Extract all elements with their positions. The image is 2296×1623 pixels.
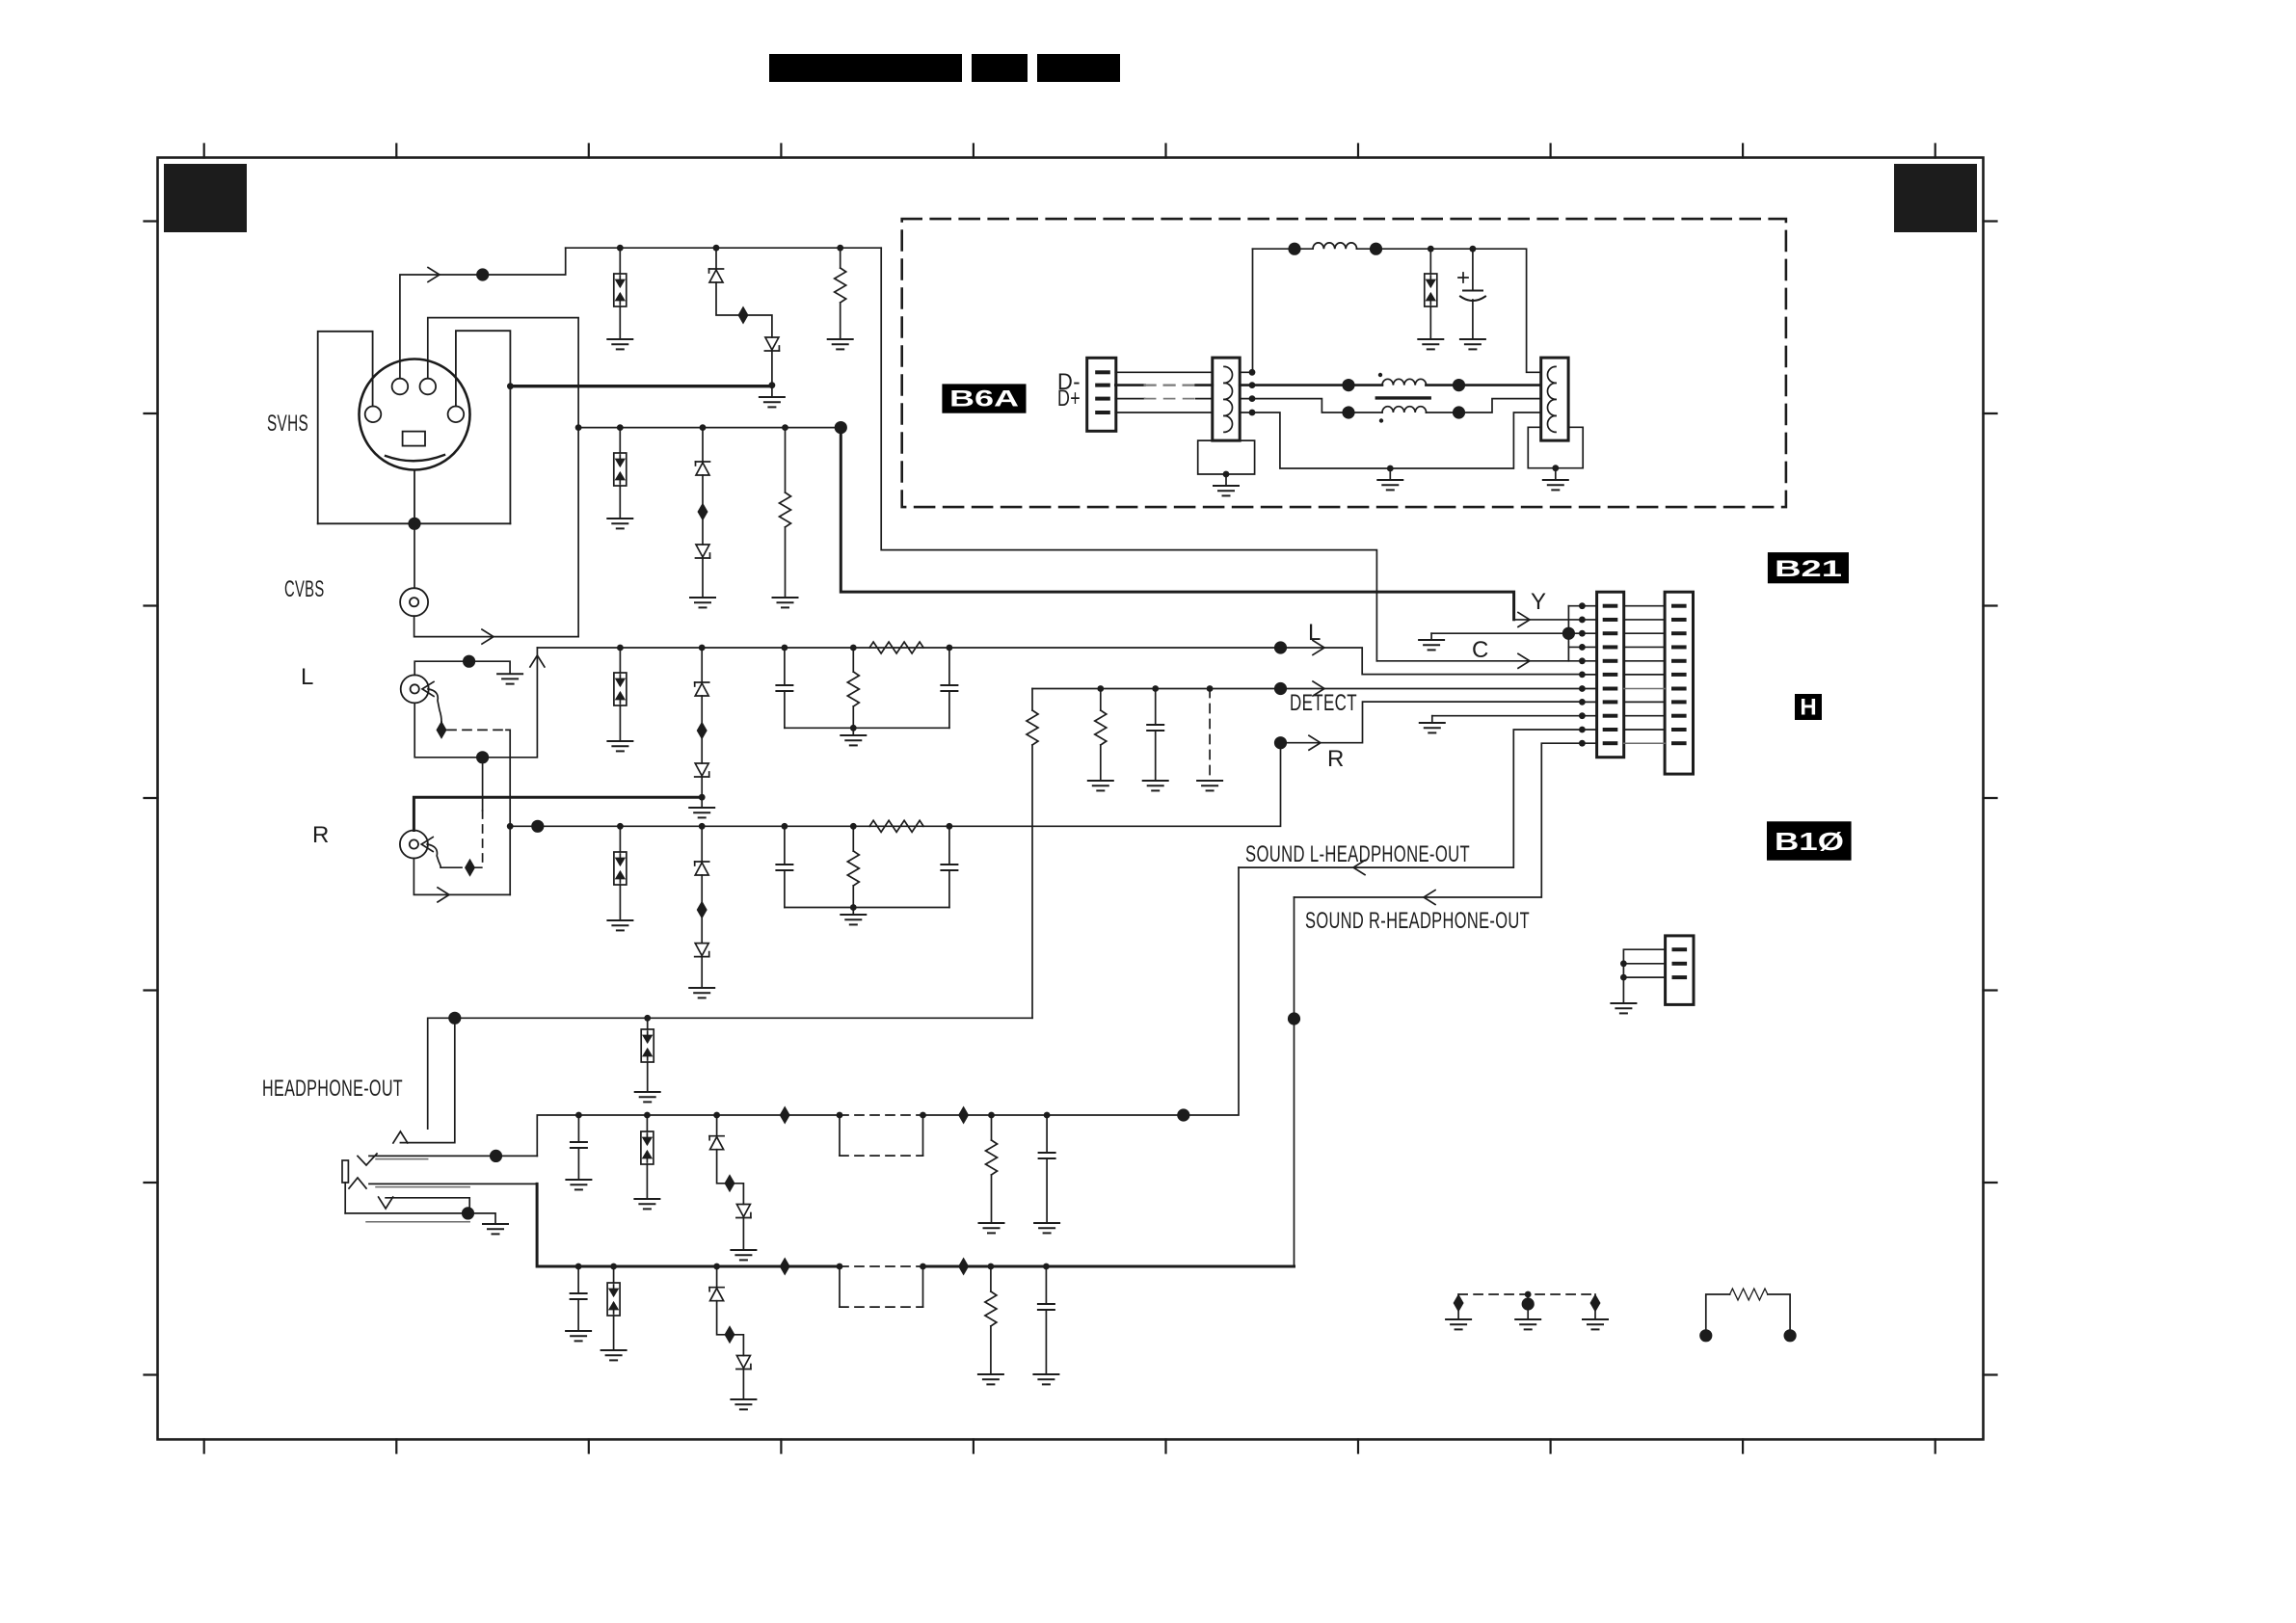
wires between connector blocks — [1624, 606, 1665, 730]
B6A label box — [942, 384, 1026, 412]
B6A dashed enclosure — [902, 219, 1786, 507]
node R cap2 — [947, 823, 953, 830]
dual diode D1 — [619, 248, 621, 274]
dual diode hpr — [613, 1266, 615, 1283]
shunt resistor L — [852, 648, 854, 672]
diamond hpl col — [725, 1174, 735, 1192]
svg-text:B21: B21 — [1775, 556, 1842, 582]
node hpl cap — [575, 1112, 582, 1119]
junction shell bottom — [408, 518, 420, 530]
choke coil upper — [1382, 379, 1427, 385]
shunt resistor R — [852, 826, 854, 851]
ground hpl cap — [566, 1180, 591, 1189]
node det res — [1097, 685, 1104, 692]
ground hpr cap — [566, 1331, 591, 1341]
arrow Y conn — [1518, 612, 1530, 626]
node R cap — [782, 823, 788, 830]
ground D2 — [760, 397, 785, 407]
wire pin1 to T1 — [1115, 371, 1213, 373]
wire headphone detect bus — [428, 1018, 1032, 1129]
cap hpl 2 — [1046, 1115, 1048, 1153]
wire row11 SOUND R — [1295, 743, 1583, 897]
wire L switch to R row — [506, 730, 510, 894]
junction top row left — [1288, 243, 1300, 255]
L RCA jack — [401, 675, 429, 703]
ground L col — [689, 808, 714, 817]
R jack switch lever — [427, 844, 441, 867]
node hpl diode col — [713, 1112, 720, 1119]
ground run mid — [1377, 480, 1402, 490]
dual diode D3 — [619, 428, 621, 453]
small 3-pin connector — [1666, 936, 1694, 1005]
arrow DETECT — [1313, 681, 1324, 696]
diode column D4 upper — [702, 428, 704, 462]
junction hpl out — [1177, 1108, 1189, 1121]
junction sleeve — [462, 1207, 474, 1219]
diamond hpr col — [725, 1325, 735, 1344]
wire headphone L row — [537, 1115, 840, 1156]
wire B6A top row — [1253, 249, 1541, 372]
wire R row — [510, 743, 1280, 827]
junction DETECT out — [1274, 682, 1287, 695]
node hpr tvs — [610, 1264, 617, 1270]
junction shell right ground — [507, 383, 514, 389]
ground hpl res — [979, 1223, 1004, 1233]
dashed ground cluster link — [1458, 1293, 1595, 1295]
svg-text:SVHS: SVHS — [267, 411, 308, 437]
connector block left — [1597, 592, 1624, 758]
frame tick marks right — [1984, 222, 1997, 1375]
wire second row — [578, 427, 841, 429]
arrow SOUND R — [1424, 891, 1435, 905]
svg-text:Y: Y — [1531, 589, 1547, 615]
ground L shell — [497, 674, 522, 683]
ground hpl tvs — [634, 1199, 659, 1209]
cap R pi 2 — [948, 826, 950, 865]
ground D4 — [690, 598, 715, 607]
arrow Y — [428, 268, 440, 282]
diode col R upper — [701, 826, 703, 862]
junction tip bar — [490, 1150, 502, 1162]
ground R1 — [828, 339, 853, 349]
ground L tvs — [607, 741, 632, 751]
wire row9 to ground — [1432, 715, 1583, 717]
diode col R lower — [701, 918, 703, 944]
SVHS connector circle — [360, 359, 470, 470]
CVBS drop from shell — [414, 523, 415, 588]
ground R tvs — [607, 920, 632, 930]
polarity dot upper — [1378, 373, 1382, 377]
node R tvs — [617, 823, 624, 830]
dual diode hp bus — [647, 1018, 649, 1029]
connector block right — [1665, 592, 1693, 774]
node hpr cap2 — [1043, 1264, 1050, 1270]
ground hpr res — [978, 1374, 1003, 1384]
H label box — [1795, 694, 1822, 720]
node R diode col — [699, 823, 706, 830]
diamond hpl row — [780, 1106, 790, 1125]
diode D2 upper — [715, 248, 717, 269]
wire T1 pin4 to ground run — [1240, 412, 1541, 468]
junction L out — [1274, 641, 1287, 653]
arrow SOUND L — [1353, 861, 1365, 875]
L jack shell top wire — [414, 661, 510, 675]
ground det dashed — [1197, 781, 1222, 790]
ground R shunt — [841, 915, 866, 924]
dashed link L switch — [447, 729, 506, 731]
cap hpl — [577, 1115, 579, 1142]
diode col L lower — [701, 738, 703, 763]
electrolytic cap B6A — [1472, 249, 1474, 290]
ground cluster 1 — [1446, 1319, 1471, 1329]
wire row3 to ground — [1431, 632, 1568, 634]
node row1 resistor — [837, 245, 843, 252]
redacted title bar 2 — [972, 54, 1028, 82]
cluster stub 1 — [1457, 1294, 1459, 1319]
wire headphone R row — [537, 1184, 840, 1266]
connector pins left block — [1603, 604, 1618, 746]
svg-text:B1Ø: B1Ø — [1775, 827, 1844, 856]
L jack bottom wire — [414, 648, 537, 758]
node det dashed — [1207, 685, 1214, 692]
cap DETECT — [1155, 689, 1157, 726]
junction choke2 right — [1453, 406, 1465, 418]
svg-text:L: L — [301, 664, 314, 690]
junction L rail — [850, 725, 857, 732]
node L tvs — [617, 645, 624, 652]
junction R out — [1274, 736, 1287, 749]
junction row2 right — [835, 421, 847, 434]
SVHS inner bottom arc — [386, 455, 444, 461]
redacted title bar 3 — [1037, 54, 1120, 82]
node L cap2 — [947, 645, 953, 652]
SVHS shield stub to shell — [414, 470, 415, 524]
node L cap — [782, 645, 788, 652]
R jack switch arrow — [421, 838, 433, 852]
diamond hpr row 2 — [958, 1258, 969, 1276]
CVBS jack — [400, 588, 428, 616]
B21 label box — [1768, 552, 1849, 583]
resistor R2 — [785, 428, 787, 492]
dashed option box hpl — [837, 1112, 843, 1119]
polarity dot lower — [1379, 418, 1383, 422]
junction choke2 left — [1342, 406, 1354, 418]
resistor R1 — [840, 248, 841, 268]
R jack bottom wire — [414, 859, 510, 895]
svg-text:R: R — [1327, 746, 1345, 772]
diode D2 lower — [764, 337, 779, 351]
SVHS keyway — [403, 432, 425, 446]
node hpr diode col — [713, 1264, 720, 1270]
R RCA jack — [400, 831, 428, 859]
ground hpl cap2 — [1034, 1223, 1059, 1233]
ground L shunt — [841, 735, 866, 745]
L jack switch lever — [428, 689, 441, 722]
svg-text:H: H — [1800, 695, 1816, 721]
wire R to connector — [1281, 702, 1583, 743]
node L diode col — [699, 645, 706, 652]
svg-text:R: R — [312, 822, 330, 848]
svg-text:DETECT: DETECT — [1290, 690, 1357, 716]
junction choke right — [1453, 379, 1465, 391]
frame tick marks top — [145, 145, 1997, 1453]
ground cluster 2 — [1515, 1319, 1540, 1329]
junction R row start — [507, 823, 514, 830]
diamond L switch — [437, 721, 447, 739]
junction L shell — [463, 655, 475, 668]
rail L pi — [785, 727, 949, 729]
wire T1 out1 to top row — [1240, 249, 1252, 372]
node row1 tvs — [617, 245, 624, 252]
wire C pin up — [428, 318, 578, 637]
junction bus row3 — [1562, 627, 1575, 640]
dashed option box hpr — [837, 1264, 843, 1270]
ground D3 — [607, 519, 632, 528]
SVHS pin 1 (Y) — [392, 379, 409, 395]
tip contact bar — [369, 1155, 537, 1157]
ground cluster 3 — [1583, 1319, 1608, 1329]
pin stubs — [1095, 370, 1110, 374]
diode col L upper — [701, 648, 703, 682]
ground det res — [1088, 781, 1113, 790]
node L shunt res — [850, 645, 857, 652]
wire L row — [537, 647, 1280, 649]
arrow C conn — [1518, 653, 1530, 668]
resistor hpr — [990, 1266, 992, 1291]
arrow L out — [1313, 641, 1324, 655]
svg-text:L: L — [1308, 620, 1322, 646]
diode col hpr lower — [736, 1356, 751, 1370]
wire L to connector — [1281, 648, 1583, 675]
ground 3-pin — [1611, 1003, 1636, 1013]
shell ground heavy wire — [510, 385, 772, 387]
jack tip contact chevron — [358, 1154, 377, 1165]
svg-text:SOUND R-HEADPHONE-OUT: SOUND R-HEADPHONE-OUT — [1305, 908, 1530, 934]
junction Y wire — [476, 268, 489, 280]
frame tick marks left — [145, 222, 158, 1375]
node row2 diode — [700, 424, 707, 431]
wire row10 SOUND L — [1239, 730, 1582, 867]
ground bus vertical — [1567, 606, 1569, 661]
wire Y feed to connector — [841, 428, 1513, 620]
USB 4-pin connector — [1087, 358, 1116, 431]
transformer T1 — [1213, 358, 1240, 440]
diode col hpr upper — [716, 1266, 718, 1288]
SVHS shell outline left — [318, 332, 373, 524]
node hpl tvs — [644, 1112, 651, 1119]
node hpr cap — [575, 1264, 582, 1270]
ground hpr cap2 — [1033, 1374, 1058, 1384]
junction shell wire end — [769, 382, 776, 388]
SVHS pin 4 (GND R) — [448, 407, 465, 423]
dual diode R row — [619, 826, 621, 852]
resistor jumper element — [1706, 1294, 1790, 1336]
inductor L1 — [1313, 243, 1357, 249]
junction R rail — [850, 904, 857, 911]
node hpl res — [988, 1112, 995, 1119]
node det cap — [1152, 685, 1159, 692]
ground D1 — [607, 339, 632, 349]
frame tick marks bottom — [204, 1440, 1936, 1453]
diode column D4 lower — [702, 520, 704, 545]
ground sleeve — [483, 1224, 508, 1234]
wire D+ choke row — [1240, 399, 1382, 412]
ground cap B6A — [1460, 339, 1485, 349]
diamond R switch — [465, 859, 475, 877]
node hp tvs — [644, 1015, 651, 1022]
node hpr res — [988, 1264, 995, 1270]
wire Y arrow to pin — [1514, 619, 1583, 621]
junction L col bold — [699, 794, 706, 801]
ground hpr tvs — [601, 1350, 627, 1360]
node R shunt — [850, 823, 857, 830]
switch lever up — [400, 1018, 454, 1142]
arrow CVBS — [482, 629, 494, 644]
ground row9 — [1420, 723, 1445, 732]
sleeve contact bar — [345, 1213, 495, 1224]
page border frame — [158, 158, 1984, 1440]
cluster stub 3 — [1594, 1294, 1596, 1319]
series resistor R — [869, 820, 923, 832]
ground hpr col — [731, 1399, 756, 1409]
wire Y pin up — [400, 248, 566, 379]
svg-text:SOUND L-HEADPHONE-OUT: SOUND L-HEADPHONE-OUT — [1245, 841, 1470, 867]
B1ated label box — [1767, 821, 1852, 860]
node tvs B6A — [1428, 246, 1434, 253]
wire DETECT row — [1032, 688, 1582, 690]
diamond D4 — [698, 503, 708, 521]
ground T1 — [1214, 486, 1239, 495]
SVHS pin 2 (C) — [420, 379, 437, 395]
dual diode B6A — [1429, 249, 1431, 274]
choke core — [1376, 396, 1429, 399]
ground det cap — [1143, 781, 1168, 790]
dual diode hpl — [646, 1115, 648, 1131]
node second row tap — [575, 424, 582, 431]
cluster stub 2 — [1527, 1294, 1529, 1319]
cap hpr 2 — [1045, 1266, 1047, 1304]
redacted title bar 1 — [769, 54, 962, 82]
resistor hpl — [991, 1115, 993, 1140]
wire C arrow to pin — [1376, 660, 1582, 662]
node cap B6A — [1470, 246, 1477, 253]
ground row3 — [1419, 640, 1444, 650]
resistor DETECT series — [1027, 710, 1038, 745]
SVHS shell bottom wire — [318, 522, 511, 524]
node row1 diode — [713, 245, 720, 252]
wire pin4 to T1 — [1115, 412, 1213, 413]
junction lever feed — [448, 1012, 461, 1024]
diamond hpl row 2 — [958, 1106, 969, 1125]
series resistor L — [869, 642, 923, 653]
arrow R out — [1309, 735, 1321, 750]
svg-text:D+: D+ — [1057, 386, 1081, 412]
top-left corner block — [164, 164, 247, 232]
dual diode L row — [619, 648, 621, 673]
cap L pi 1 — [784, 648, 786, 685]
ground T2 — [1543, 480, 1568, 490]
CVBS output wire — [414, 616, 578, 636]
junction R row — [531, 820, 544, 833]
node ground run — [1387, 466, 1394, 472]
junction sound R mid — [1288, 1012, 1300, 1024]
jack sleeve chevron — [349, 1178, 366, 1188]
T2 ground bracket — [1528, 427, 1583, 467]
connector pins right block — [1671, 604, 1687, 746]
connector row dots — [1579, 602, 1586, 746]
heavy wire to R jack shell — [414, 797, 702, 830]
wire D+ to T1 — [1115, 398, 1144, 400]
wire D- to T1 — [1115, 384, 1144, 386]
junction top row right — [1370, 243, 1382, 255]
ground hpl col — [731, 1250, 756, 1260]
T1 ground bracket — [1198, 440, 1255, 474]
wire D- choke row — [1240, 384, 1382, 386]
jack plug stem — [344, 1183, 346, 1213]
ground R col — [689, 988, 714, 998]
arrow L up — [530, 655, 545, 667]
node hpl cap2 — [1044, 1112, 1051, 1119]
cap hpr — [577, 1266, 579, 1293]
ground hp tvs — [635, 1092, 660, 1102]
ring contact bar — [369, 1183, 537, 1184]
junction L bottom — [476, 751, 489, 763]
diamond hpr row — [780, 1258, 790, 1276]
diode col hpl upper — [716, 1115, 718, 1136]
rail R pi — [785, 907, 949, 909]
headphone jack plug tip — [342, 1160, 348, 1183]
SVHS pin 3 (GND L) — [365, 407, 382, 423]
transformer T2 — [1541, 358, 1568, 440]
svg-text:C: C — [1472, 637, 1489, 663]
ground R2 — [773, 598, 798, 607]
resistor DETECT shunt — [1100, 689, 1102, 711]
L jack switch arrow — [422, 681, 434, 696]
diode col hpl lower — [736, 1205, 751, 1218]
diamond R col — [697, 901, 707, 919]
junction choke left — [1342, 379, 1354, 391]
switch lever down — [386, 1198, 469, 1213]
node cluster mid — [1525, 1291, 1532, 1298]
cap R pi 1 — [784, 826, 786, 865]
svg-text:HEADPHONE-OUT: HEADPHONE-OUT — [262, 1076, 403, 1102]
arrow R jack out — [438, 888, 449, 902]
svg-text:B6A: B6A — [949, 386, 1019, 412]
top-right corner block — [1894, 164, 1977, 232]
dashed stub DETECT — [1209, 689, 1211, 779]
wires 3-pin to ground — [1623, 949, 1665, 1003]
diamond L col — [697, 722, 707, 740]
diamond D2 — [738, 306, 749, 325]
node row2 tvs — [617, 424, 624, 431]
svg-text:CVBS: CVBS — [284, 576, 325, 602]
wire DETECT down to headphone — [1031, 689, 1033, 711]
ground tvs B6A — [1418, 339, 1443, 349]
connector row stub wires — [1568, 606, 1596, 744]
wire C feed to connector — [881, 248, 1376, 661]
node row2 resistor — [782, 424, 788, 431]
cap L pi 2 — [948, 648, 950, 685]
choke coil lower — [1382, 407, 1427, 412]
dashed mech link down — [482, 758, 484, 811]
SVHS shell outline right — [456, 331, 511, 523]
wire top row 1 — [566, 247, 882, 249]
